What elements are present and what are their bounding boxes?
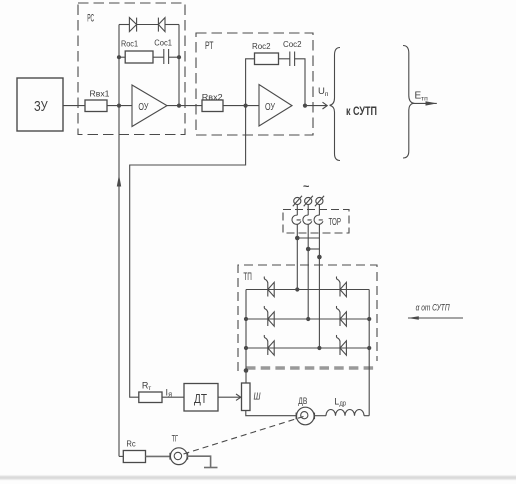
svg-text:α от СУТП: α от СУТП [416,303,450,313]
arrow up on feedback wire [117,175,121,187]
svg-text:ОУ: ОУ [138,102,148,113]
tap stub 1 [297,237,319,239]
svg-text:Rвх1: Rвх1 [90,89,110,99]
op-amp U1 [132,85,167,127]
svg-text:ДТ: ДТ [194,391,207,406]
svg-text:Rвх2: Rвх2 [202,92,223,102]
arrow Етп [412,102,437,104]
resistor Rт [139,392,162,403]
block ЗУ [17,78,63,131]
svg-text:Rос1: Rос1 [121,40,138,49]
phase wire 2 [307,224,309,319]
motor ДВ brushes [295,413,297,420]
wire ДВ to Lдр [314,415,326,417]
svg-text:ТП: ТП [243,271,252,283]
thyristor VS3 [264,335,274,355]
dashed box РС [78,3,185,135]
shunt Ш [242,383,251,411]
tap dot 3 [317,255,322,260]
wire Ш to ДВ [246,411,297,416]
node dot right Coc1 [177,55,181,59]
arrow ДТ to Ш [218,396,241,398]
svg-text:РС: РС [87,13,94,25]
thyristor VS4 [336,277,346,297]
feedback 2 right vertical [295,59,305,106]
wire Roc1 branch [119,56,125,58]
node dot left Roc1 [117,55,121,59]
wire breaker 1 to reactor 1 [296,205,298,216]
inductor Lдр [326,410,364,416]
arrow Uп to brace [305,105,327,107]
wire top branch [119,24,129,26]
wire Roc2 to Coc2 [279,58,290,60]
thyristor VS1 [264,277,274,297]
resistor Rос2 [255,53,279,65]
bridge rail 3 [246,347,369,349]
thick dashed bottom edge ТП [246,366,376,369]
dashed box ТОР [283,210,349,234]
thyristor VS2 [264,306,274,326]
reactor coil 2 [303,215,312,224]
capacitor Сос2 [289,52,291,67]
dashed box ТП [238,265,377,371]
tacho ТГ brushes [169,453,171,460]
motor ДВ [297,407,315,425]
node B [244,104,248,108]
tap stub 2 [308,248,319,250]
svg-text:Сос2: Сос2 [283,40,302,49]
left dc rail [245,290,247,384]
right brace [403,46,413,159]
wire ТГ to ground [187,456,210,467]
wire Rс to ТГ [146,455,171,457]
left brace [330,48,340,161]
output node op1 [177,104,181,108]
svg-text:ОУ: ОУ [265,102,275,113]
ground [204,467,218,469]
breaker 1 [294,197,301,204]
output node op2 [303,104,307,108]
svg-text:Ш: Ш [254,392,262,403]
diode VD1 [129,18,136,32]
speed feedback vertical wire [118,106,120,457]
breaker 3 [316,197,323,204]
right dc rail [368,290,370,416]
phase wire 3 [318,224,320,348]
node A [117,104,121,108]
resistor Rвх1 [85,100,107,112]
capacitor Сос1 [163,49,165,64]
wire breaker 3 to reactor 3 [318,205,320,216]
thyristor VS6 [336,335,346,355]
svg-text:к СУТП: к СУТП [346,106,377,118]
feedback left vertical wire [118,25,120,106]
block ДТ [184,384,218,412]
current feedback wire [130,106,246,398]
wire Rвх1 to op-amp U1 [107,105,132,107]
svg-text:Сос1: Сос1 [154,39,172,48]
phase wire 1 [296,224,298,289]
bridge rail 2 [246,318,369,320]
svg-text:Rос2: Rос2 [252,42,271,51]
wire op1 to Rвх2 [167,105,202,107]
dashed box РТ [196,33,313,135]
svg-text:ДВ: ДВ [298,396,307,406]
resistor Rвх2 [202,100,223,112]
bridge rail 1 [246,289,369,291]
svg-text:ЗУ: ЗУ [34,98,48,115]
svg-text:ТГ: ТГ [172,434,179,444]
svg-text:~: ~ [303,181,310,193]
phase junction dots [295,287,299,291]
wire feedback to Rс [119,455,123,457]
reactor coil 1 [292,215,301,224]
feedback 2 left vertical [246,59,255,106]
resistor Rс [123,451,145,463]
svg-text:т: т [148,385,151,392]
diode VD2 [158,18,165,32]
svg-text:РТ: РТ [205,40,214,52]
tacho ТГ [170,448,187,465]
op-amp U2 [259,85,292,127]
svg-text:др: др [340,401,347,408]
svg-text:Rс: Rс [126,439,136,449]
feedback right vertical wire [178,25,180,106]
breaker 2 [305,197,312,204]
mechanical coupling dashed [184,417,304,455]
svg-text:п: п [325,91,329,98]
wire ЗУ to Rвх1 [63,105,85,107]
resistor Rос1 [125,51,153,63]
wire Lдр to right rail [364,415,369,417]
wire Rвх2 to op-amp U2 [223,105,259,107]
reactor coil 3 [314,215,323,224]
svg-text:ТОР: ТОР [329,216,342,228]
wire Rт to ДТ [162,396,184,398]
thyristor VS5 [336,306,346,326]
wire breaker 2 to reactor 2 [307,205,309,216]
svg-text:тп: тп [421,95,428,102]
